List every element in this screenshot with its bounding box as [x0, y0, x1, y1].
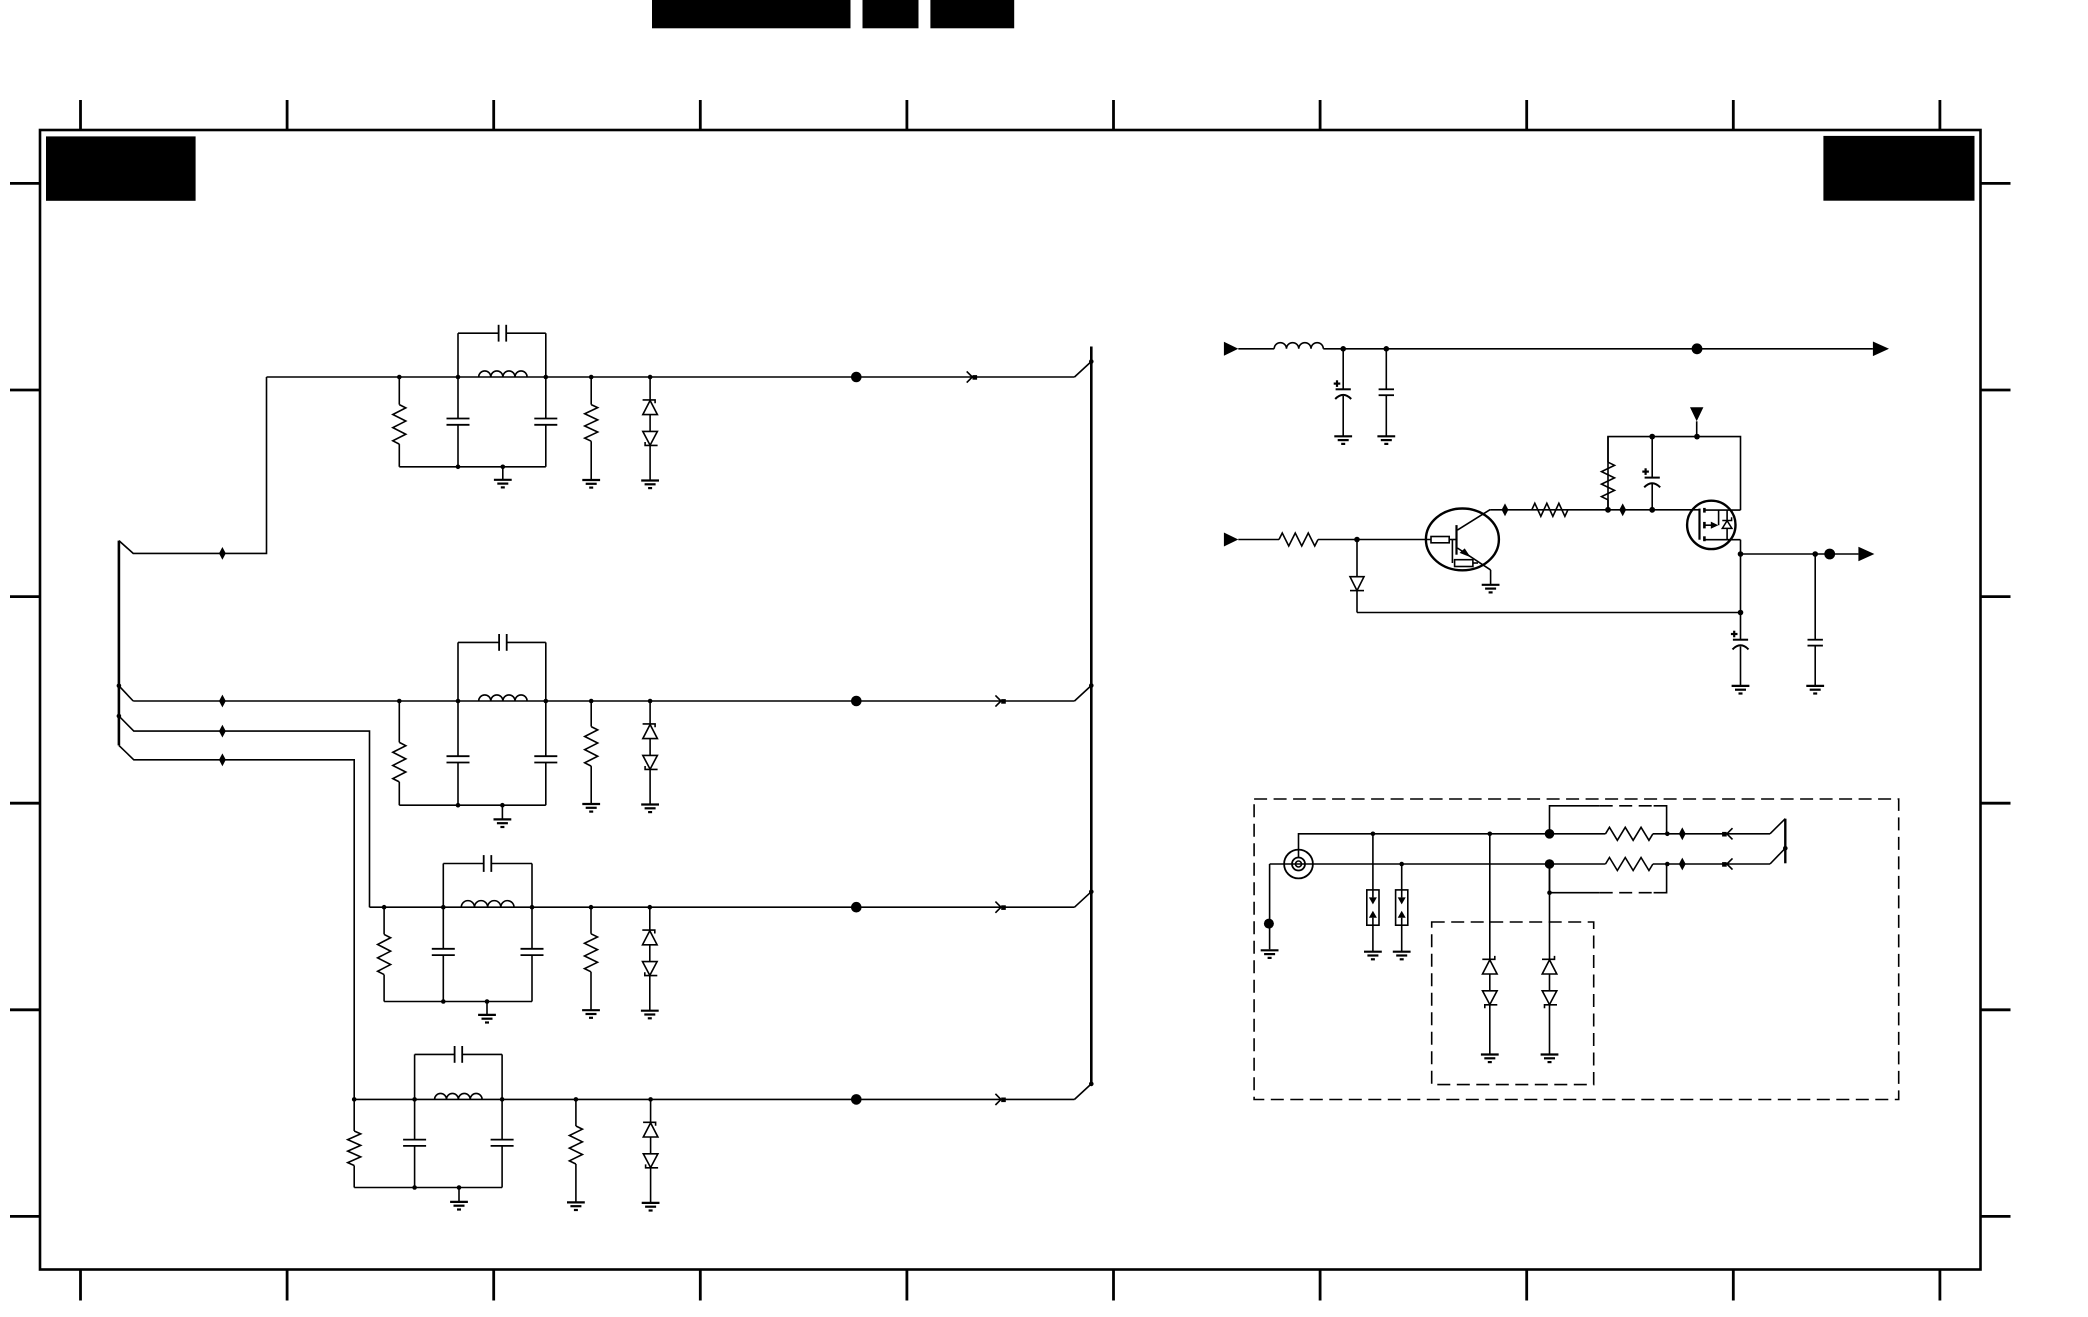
wire: Q1 emitter to ground — [1490, 570, 1492, 585]
node marker row 4 — [851, 1094, 862, 1105]
resistor R9 — [1606, 858, 1653, 871]
resistor R32 (right) — [590, 907, 592, 934]
ground under D4 — [642, 1202, 660, 1204]
junction at C10 tap — [1812, 551, 1818, 557]
title text redaction block 2 — [863, 0, 919, 28]
resistor R6 (base series) — [1279, 533, 1318, 546]
inductor L2 — [479, 695, 527, 701]
output arrow (supply output) — [1858, 547, 1874, 562]
capacitor C43 (right shunt) — [501, 1099, 503, 1139]
power symbol (supply down-arrow) — [1690, 407, 1703, 421]
inductor L4 — [435, 1093, 483, 1099]
polarity diamond on row 3 feed — [219, 725, 226, 738]
node marker line 1 — [1545, 829, 1555, 839]
junctions on row 3 line — [382, 905, 387, 910]
node marker (top feed output) — [1692, 343, 1703, 354]
title text redaction block 3 — [930, 0, 1014, 28]
wire: output bus vertical — [1090, 347, 1093, 1085]
module enclosure (inner dashed box) — [1432, 922, 1594, 1085]
wire: Q2 drain to output node — [1740, 540, 1742, 554]
wire: Q1 collector to Q2 gate — [1490, 509, 1699, 511]
junction at line 2 drop — [1547, 890, 1552, 895]
ground under R42 — [567, 1201, 585, 1203]
ground under C10 — [1806, 685, 1824, 687]
junction at feedback tap — [1738, 610, 1744, 616]
wire: jack shield to ground — [1269, 864, 1271, 949]
resistor R5 (gate pull-up) — [1607, 437, 1609, 463]
polarity + for C9 — [1731, 633, 1738, 635]
output arrow (top feed) — [1873, 342, 1889, 357]
junctions on row 1 line — [397, 375, 402, 380]
capacitor C13 (right shunt) — [545, 377, 547, 419]
capacitor C21 (bypass over L2) — [457, 642, 459, 701]
diode D7 (dual clamp) — [1542, 956, 1555, 959]
wire: line 1 through R8 — [1550, 833, 1606, 835]
transistor Q1 (digital NPN) — [1426, 509, 1499, 571]
capacitor C7 — [1385, 349, 1387, 390]
ground for jack shield — [1261, 949, 1279, 951]
resistor R31 (left damping) — [383, 907, 385, 934]
wire: feedback return line — [1357, 612, 1741, 614]
wire: row 3 ground return — [384, 1001, 532, 1003]
ground under R22 — [582, 803, 600, 805]
return arrow line 1 — [1727, 828, 1733, 834]
junctions on signal line 1 — [1371, 832, 1376, 837]
surge arrester Z1 — [1372, 834, 1374, 890]
node marker row 3 — [851, 902, 862, 913]
wire: output node down to feedback — [1740, 554, 1742, 613]
resistor R21 (left damping) — [398, 701, 400, 742]
wire: line 2 to connector stub — [1770, 848, 1785, 864]
capacitor C9 (electrolytic) — [1740, 613, 1742, 640]
ground under C9 — [1732, 685, 1750, 687]
wire: row 1 main line — [267, 376, 1075, 378]
junctions on row 2 ground return — [456, 803, 461, 808]
junctions on row 1 ground return — [456, 465, 461, 470]
wire: row 3 feed (bus entry, horizontal, dropper) — [119, 716, 370, 907]
node marker row 2 — [851, 696, 862, 707]
junctions on row 4 line — [352, 1097, 357, 1102]
polarity + for C6 — [1334, 383, 1341, 385]
resistor R12 (right) — [590, 377, 592, 405]
flow arrow row 1 — [967, 371, 973, 377]
polarity diamond on row 4 feed — [219, 753, 226, 766]
ground row 1 (center) — [502, 467, 504, 480]
MOSFET Q2 (P-channel switch) — [1687, 501, 1735, 549]
resistor R11 (left damping) — [398, 377, 400, 405]
ground under D2 — [641, 803, 659, 805]
junctions on row 4 ground return — [412, 1185, 417, 1190]
wire: line 1 drop to D6 — [1489, 834, 1491, 960]
junctions on row 3 ground return — [441, 999, 446, 1004]
junction after R9 — [1665, 862, 1670, 867]
junction on connector stub — [1783, 846, 1788, 851]
bypass link over R8 (dashed jumper) — [1550, 806, 1600, 834]
capacitor C8 (electrolytic) — [1651, 437, 1653, 478]
input connector arrow (top feed) — [1224, 342, 1238, 356]
diode D3 (dual transient suppressor) — [649, 907, 651, 930]
junction at output node — [1738, 551, 1744, 557]
ground row 3 (center) — [486, 1002, 488, 1015]
bypass link under R9 (dashed jumper) — [1550, 864, 1600, 893]
junctions on row 2 line — [397, 699, 402, 704]
node marker (output) — [1824, 549, 1835, 560]
junction on output bus (row 1) — [1089, 359, 1094, 364]
connector J1 (coax jack) — [1284, 850, 1313, 879]
wire: line 2 through R9 — [1550, 863, 1606, 865]
wire: signal line 2 (from jack ring) — [1270, 863, 1550, 865]
flow arrow row 3 — [995, 902, 1001, 908]
surge arrester Z2 — [1401, 864, 1403, 890]
wire: line 2 drop to D7 — [1549, 864, 1551, 959]
junctions on V+ rail — [1649, 434, 1655, 440]
title text redaction block 1 — [652, 0, 851, 28]
junction on bus (row 3 feed) — [117, 714, 122, 719]
diode D6 (dual clamp) — [1482, 956, 1495, 959]
inductor L1 — [479, 371, 527, 377]
title block redaction (top-left) — [46, 136, 196, 200]
capacitor C31 (bypass over L3) — [442, 864, 444, 908]
resistor R42 (right) — [575, 1099, 577, 1126]
capacitor C41 (bypass over L4) — [414, 1054, 416, 1099]
return arrow line 2 — [1727, 858, 1733, 864]
inductor L3 — [461, 901, 514, 908]
capacitor C23 (right shunt) — [545, 701, 547, 756]
diode D2 (dual transient suppressor) — [649, 701, 651, 724]
wire: row 2 main line — [133, 700, 1074, 702]
ground under D6 — [1481, 1053, 1499, 1055]
capacitor C42 (left shunt) — [414, 1099, 416, 1139]
capacitor C6 (electrolytic) — [1342, 349, 1344, 390]
ground under D3 — [641, 1010, 659, 1012]
ground row 4 (center) — [458, 1188, 460, 1202]
connector edge stub — [1784, 819, 1786, 864]
flow arrow row 2 — [995, 695, 1001, 701]
resistor R8 — [1606, 827, 1653, 840]
node marker row 1 — [851, 372, 862, 383]
junction on output bus (row 3) — [1089, 889, 1094, 894]
wire: row 2 feed (bus entry) — [119, 686, 133, 701]
junction on signal line 2 — [1399, 862, 1404, 867]
polarity diamond after Q1 — [1502, 503, 1509, 516]
wire: top feed line — [1238, 348, 1274, 350]
wire: signal line 1 (from jack tip) — [1299, 834, 1550, 858]
wire: row 4 feed (bus entry, horizontal, dropper) — [119, 745, 354, 1099]
capacitor C12 (left shunt) — [457, 377, 459, 419]
wire: output line — [1741, 553, 1859, 555]
polarity diamond on row 1 feed — [219, 547, 226, 560]
wire: row 3 main line — [370, 906, 1075, 908]
diode D4 (dual transient suppressor) — [650, 1099, 652, 1122]
wire: V+ rail — [1608, 437, 1741, 511]
polarity + for C8 — [1642, 471, 1649, 473]
wire: row 4 ground return — [354, 1187, 502, 1189]
ground under R12 — [582, 479, 600, 481]
inductor L5 — [1274, 343, 1323, 349]
node marker line 2 — [1545, 859, 1555, 869]
junctions on gate line — [1605, 507, 1611, 513]
diode D1 (dual transient suppressor) — [649, 377, 651, 400]
ground under Q1 — [1482, 584, 1500, 586]
wire: control input line — [1238, 539, 1279, 541]
wire: row 1 feed (bus entry, horizontal, riser) — [119, 377, 267, 553]
resistor R22 (right) — [590, 701, 592, 727]
ground under D1 — [641, 479, 659, 481]
capacitor C33 (right shunt) — [531, 907, 533, 949]
junction on output bus (row 2) — [1089, 683, 1094, 688]
wire: left supply bus vertical — [118, 541, 121, 746]
shield enclosure (outer dashed box) — [1254, 799, 1899, 1100]
diode D5 — [1356, 540, 1358, 577]
title block redaction (top-right) — [1823, 136, 1974, 201]
junction at D5 anode — [1354, 537, 1360, 543]
polarity diamond on gate line — [1619, 503, 1626, 516]
junctions on top feed line — [1340, 346, 1346, 352]
junction after R8 — [1665, 832, 1670, 837]
ground under Z1 — [1364, 951, 1382, 953]
chassis node marker — [1264, 919, 1274, 929]
wire: row 1 ground return — [399, 466, 546, 468]
wire: row 2 ground return — [399, 804, 546, 806]
junction on bus (row 2 feed) — [117, 684, 122, 689]
ground row 2 (center) — [501, 805, 503, 819]
resistor R41 (left damping) — [353, 1099, 355, 1131]
capacitor C10 — [1814, 554, 1816, 640]
capacitor C32 (left shunt) — [442, 907, 444, 949]
polarity diamond on row 2 feed — [219, 695, 226, 708]
ground under C6 — [1334, 435, 1352, 437]
ground under D7 — [1541, 1053, 1559, 1055]
capacitor C22 (left shunt) — [457, 701, 459, 756]
wire: row 4 main line — [354, 1098, 1074, 1100]
polarity diamond line 2 — [1679, 858, 1686, 871]
capacitor C11 (bypass over L1) — [457, 333, 459, 377]
ground under Z2 — [1393, 951, 1411, 953]
polarity diamond line 1 — [1679, 827, 1686, 840]
resistor R7 (gate series) — [1532, 503, 1568, 516]
wire: line 1 to connector stub — [1770, 819, 1785, 834]
junction on output bus (row 4) — [1089, 1082, 1094, 1087]
flow arrow row 4 — [995, 1094, 1001, 1100]
ground under R32 — [582, 1009, 600, 1011]
input connector arrow (control input) — [1224, 533, 1238, 547]
ground under C7 — [1377, 435, 1395, 437]
